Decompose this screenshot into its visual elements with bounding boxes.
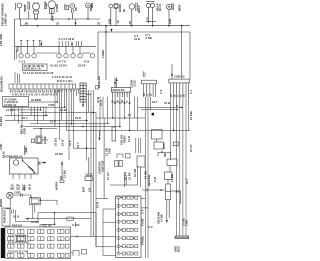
wire h y102 xyxy=(29,101,58,103)
svg-text:2B: 2B xyxy=(176,190,180,194)
svg-text:ACC: ACC xyxy=(162,143,166,149)
svg-text:LAMP LH: LAMP LH xyxy=(4,14,8,26)
wire bus4 right xyxy=(98,32,190,80)
svg-text:2R: 2R xyxy=(38,161,42,165)
svg-text:18 W: 18 W xyxy=(61,139,65,146)
fuse panel feed wires xyxy=(96,199,116,256)
lamp L2 xyxy=(33,2,40,19)
svg-text:BAT: BAT xyxy=(82,186,86,192)
svg-text:2G: 2G xyxy=(97,22,101,26)
lamp L5 xyxy=(86,3,93,19)
svg-text:16 OR: 16 OR xyxy=(123,172,127,180)
right boxes pair xyxy=(165,159,178,184)
svg-text:PWR 30A: PWR 30A xyxy=(12,224,23,227)
svg-text:1A: 1A xyxy=(170,94,173,97)
svg-text:B R G Y W L: B R G Y W L xyxy=(57,79,74,83)
svg-text:2 BK: 2 BK xyxy=(185,220,189,226)
mesh wires xyxy=(3,89,190,258)
small box left of module xyxy=(96,86,99,90)
svg-text:18 PK: 18 PK xyxy=(128,172,132,180)
dot right mid xyxy=(161,151,163,153)
relay module grid xyxy=(5,227,71,259)
svg-text:18 W: 18 W xyxy=(60,108,67,112)
svg-text:A1 B2 C3 D4: A1 B2 C3 D4 xyxy=(50,64,67,68)
svg-text:14 GY: 14 GY xyxy=(106,172,110,180)
wire lamp drops xyxy=(15,15,106,81)
wire h y148 xyxy=(74,147,97,149)
svg-text:SWITCH: SWITCH xyxy=(101,161,105,172)
bottom mid bracket xyxy=(117,154,130,159)
wire bus2 xyxy=(21,25,191,27)
svg-text:18 Y: 18 Y xyxy=(185,178,189,184)
svg-text:ABCD EF: ABCD EF xyxy=(112,88,125,92)
comb teeth labels xyxy=(144,93,185,98)
fuse panel internal rail xyxy=(118,198,120,254)
bottom-right bus bar xyxy=(175,236,189,238)
svg-text:C 1: C 1 xyxy=(189,89,193,94)
arrow above CB2 xyxy=(171,26,182,79)
mesh verticals left xyxy=(30,107,32,116)
lamp L3 xyxy=(47,1,56,19)
svg-text:C212: C212 xyxy=(132,80,136,87)
wire h y115.5 xyxy=(5,115,48,117)
svg-text:HI: HI xyxy=(122,9,126,12)
oval connector on wire xyxy=(66,217,74,220)
svg-text:18 OR: 18 OR xyxy=(133,169,137,177)
left tall box xyxy=(2,208,10,226)
bottom-left wires xyxy=(5,199,96,247)
arrow under C2 xyxy=(82,105,84,108)
arrow right-pointing xyxy=(41,161,46,163)
lamp cluster L7 xyxy=(129,3,137,26)
svg-text:18 BK: 18 BK xyxy=(43,136,47,144)
wire h y118 xyxy=(96,117,145,119)
wire h y107.5 right xyxy=(138,107,182,109)
svg-text:A B C D E F G H J K L M N P R: A B C D E F G H J K L M N P R S T xyxy=(12,93,57,97)
svg-text:C 203: C 203 xyxy=(72,223,80,227)
relay boxes mid-left xyxy=(25,129,58,156)
svg-text:HORN: HORN xyxy=(55,182,59,190)
svg-text:18B: 18B xyxy=(108,19,112,24)
tall box mid xyxy=(104,118,116,199)
svg-text:HORN RELAY: HORN RELAY xyxy=(5,155,23,159)
svg-text:14 BK: 14 BK xyxy=(160,214,164,222)
svg-text:18: 18 xyxy=(56,22,60,26)
wire bus1 xyxy=(15,18,100,20)
mesh verticals mid-right xyxy=(99,97,101,137)
svg-text:2B: 2B xyxy=(174,94,176,97)
wire h y112.5 xyxy=(20,111,96,113)
arrow under C3 xyxy=(166,220,168,223)
svg-text:2C: 2C xyxy=(147,93,149,96)
svg-text:14 LG: 14 LG xyxy=(6,108,14,112)
wire bus3 xyxy=(15,45,96,47)
wire h y123.8 xyxy=(30,123,110,125)
svg-text:PARK: PARK xyxy=(43,1,47,9)
svg-text:HDLP: HDLP xyxy=(137,5,141,13)
mid-right component box xyxy=(125,156,146,187)
svg-text:18 Y: 18 Y xyxy=(76,142,80,148)
svg-text:PK: PK xyxy=(74,7,78,11)
svg-text:2 R: 2 R xyxy=(88,188,92,192)
svg-text:12 R: 12 R xyxy=(127,136,131,142)
svg-text:2 W: 2 W xyxy=(153,177,157,182)
relay switch box RS1 xyxy=(10,158,39,174)
svg-text:C100 BLK 16: C100 BLK 16 xyxy=(24,67,42,71)
svg-text:16 DG: 16 DG xyxy=(55,152,63,156)
svg-text:2 B: 2 B xyxy=(24,148,28,152)
left ticks column xyxy=(15,72,20,83)
svg-text:2 RD: 2 RD xyxy=(48,103,54,107)
svg-text:2 RED: 2 RED xyxy=(101,50,105,58)
svg-text:GRD: GRD xyxy=(16,46,20,52)
RS1 pins xyxy=(13,174,31,191)
wire h y110 xyxy=(10,109,41,111)
svg-text:16 B: 16 B xyxy=(13,215,19,219)
arrow up mid xyxy=(60,161,64,183)
arrow pair into M1 xyxy=(114,78,118,88)
svg-text:86 D: 86 D xyxy=(28,184,32,190)
svg-text:12 BK: 12 BK xyxy=(63,170,67,178)
wire h y126.5 xyxy=(22,126,120,128)
svg-text:16 P: 16 P xyxy=(68,140,72,146)
svg-text:A1 C2 E3 G4 J5 L6: A1 C2 E3 G4 J5 L6 xyxy=(8,234,29,237)
svg-text:3 PK: 3 PK xyxy=(107,148,111,154)
svg-text:12 P: 12 P xyxy=(50,120,56,124)
svg-text:C 4: C 4 xyxy=(141,209,145,214)
wire h y120.5 xyxy=(5,119,88,121)
svg-text:HORN: HORN xyxy=(0,199,3,207)
svg-text:18W: 18W xyxy=(50,15,54,21)
right verticals bundle xyxy=(144,97,146,258)
svg-text:5E: 5E xyxy=(184,94,186,97)
svg-text:16 B: 16 B xyxy=(164,101,170,105)
svg-text:18 BRN: 18 BRN xyxy=(31,98,41,102)
arrow right bottom-left xyxy=(26,218,30,220)
svg-text:18 G: 18 G xyxy=(99,100,103,106)
svg-text:12: 12 xyxy=(128,113,132,117)
svg-text:18 T: 18 T xyxy=(152,100,158,104)
svg-text:PANEL: PANEL xyxy=(141,235,145,245)
component tick B xyxy=(65,4,69,10)
svg-text:2 RD: 2 RD xyxy=(0,144,3,150)
lamp pair L6 xyxy=(109,4,118,26)
connector strip C1 xyxy=(9,84,76,89)
svg-text:E5 F6: E5 F6 xyxy=(78,64,86,68)
svg-text:TURN: TURN xyxy=(55,4,59,12)
wire h y107 xyxy=(3,106,65,108)
svg-text:3C: 3C xyxy=(177,94,179,97)
right mid box R1 xyxy=(152,130,179,157)
svg-text:PWR DIST: PWR DIST xyxy=(3,209,7,223)
wire h y109.5 right xyxy=(141,109,177,111)
horn component xyxy=(7,192,31,198)
svg-text:14 BR: 14 BR xyxy=(170,174,174,182)
svg-text:18 LBL: 18 LBL xyxy=(189,110,193,120)
svg-text:1B: 1B xyxy=(144,93,146,96)
svg-text:4D: 4D xyxy=(180,94,183,97)
RS1 arrows xyxy=(22,160,35,174)
svg-text:2 RD: 2 RD xyxy=(146,36,152,40)
svg-text:18 BLK: 18 BLK xyxy=(0,116,3,126)
riser splice ticks xyxy=(20,40,41,46)
svg-text:30 A: 30 A xyxy=(10,184,14,190)
svg-text:18: 18 xyxy=(146,17,150,21)
junction dots xyxy=(35,18,182,131)
comb connector CB1 xyxy=(141,71,156,97)
svg-text:18 B: 18 B xyxy=(134,37,140,41)
strip pin stubs xyxy=(11,89,74,92)
mid boxes pair xyxy=(110,161,138,186)
svg-text:HEATER: HEATER xyxy=(147,175,151,186)
svg-text:.5 1.5 3 18 B: .5 1.5 3 18 B xyxy=(58,37,74,41)
svg-text:B7 D8 F9 H0 K1 M2: B7 D8 F9 H0 K1 M2 xyxy=(8,243,30,245)
module inner labels xyxy=(8,224,52,253)
dot 148 xyxy=(86,147,88,149)
svg-text:C3 E4 G5 J6 L7 N8: C3 E4 G5 J6 L7 N8 xyxy=(8,251,29,254)
svg-text:C280 12: C280 12 xyxy=(174,75,185,79)
svg-text:12 14 16 18 20 22 24 26: 12 14 16 18 20 22 24 26 xyxy=(23,71,54,75)
svg-text:C2 BK 12: C2 BK 12 xyxy=(4,103,17,107)
svg-text:FEED: FEED xyxy=(123,136,127,143)
small comb mid xyxy=(136,138,141,153)
svg-text:16 DG: 16 DG xyxy=(54,138,58,146)
svg-text:3D: 3D xyxy=(151,93,153,96)
black connector bar xyxy=(1,228,5,258)
svg-text:85 C: 85 C xyxy=(22,184,26,190)
label box C100 xyxy=(23,64,48,71)
highlighted relay cell xyxy=(16,236,25,242)
svg-text:LPS GRD: LPS GRD xyxy=(0,34,3,46)
svg-text:ACC 15A: ACC 15A xyxy=(42,224,52,227)
arrow down mid xyxy=(99,131,101,141)
svg-text:14 GN: 14 GN xyxy=(144,171,148,179)
svg-text:2G: 2G xyxy=(128,21,132,25)
module box M1 xyxy=(111,88,130,98)
J1 drop wires xyxy=(11,107,22,127)
wire h y130.5 xyxy=(67,130,190,132)
arrow down A1 xyxy=(40,41,42,46)
svg-text:C 2: C 2 xyxy=(159,89,163,94)
svg-text:FUSE: FUSE xyxy=(141,218,145,226)
fuse panel xyxy=(116,196,141,258)
svg-text:BUS: BUS xyxy=(176,246,180,252)
connector ticks A xyxy=(28,1,30,15)
horn relay box xyxy=(30,198,41,219)
svg-text:1 2 3: 1 2 3 xyxy=(19,60,26,64)
terminal circles row xyxy=(15,46,95,60)
splice ticks above bus3 xyxy=(59,41,81,46)
module to panel wire xyxy=(71,222,116,238)
connector C3 bottom-right xyxy=(141,184,181,221)
svg-text:.8B: .8B xyxy=(24,22,28,26)
capacitor stack xyxy=(60,157,92,181)
lamp L1 xyxy=(16,3,26,15)
svg-text:2 RD: 2 RD xyxy=(14,191,20,195)
svg-text:G 2: G 2 xyxy=(148,225,153,229)
svg-text:HI LO: HI LO xyxy=(158,3,162,11)
lamp pair L8 xyxy=(146,2,156,26)
svg-text:18 GY: 18 GY xyxy=(189,144,193,152)
fuse row dots xyxy=(121,197,135,247)
arrow down A2 xyxy=(71,41,73,46)
connector block C2 xyxy=(77,83,92,106)
svg-text:FDR: FDR xyxy=(23,128,27,134)
mesh verticals center xyxy=(54,89,56,127)
svg-text:18 B: 18 B xyxy=(75,116,81,120)
lamp L9 xyxy=(166,3,173,26)
svg-text:16 DG: 16 DG xyxy=(31,220,39,224)
svg-text:18B: 18B xyxy=(168,19,172,24)
svg-text:MKR: MKR xyxy=(178,5,182,11)
fuse rows xyxy=(117,196,138,255)
junction label box J1 xyxy=(3,97,29,107)
bottom small brackets xyxy=(71,250,87,257)
svg-text:16 Y: 16 Y xyxy=(22,116,28,120)
lamp L4 xyxy=(70,4,75,20)
svg-text:BULKHEAD: BULKHEAD xyxy=(0,76,4,92)
M1 pin labels xyxy=(113,99,132,104)
svg-text:87 B: 87 B xyxy=(16,184,20,190)
svg-text:18: 18 xyxy=(116,20,120,24)
svg-text:MKR: MKR xyxy=(89,5,93,11)
comb connector CB2 xyxy=(169,79,190,98)
arrow to bus2 xyxy=(74,19,76,26)
svg-text:12 R: 12 R xyxy=(96,202,100,208)
